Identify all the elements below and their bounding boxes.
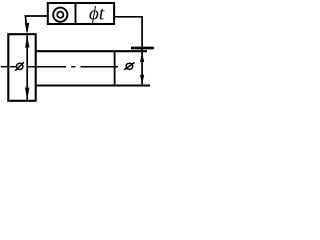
concentricity symbol inner circle <box>57 12 63 18</box>
right leader wire from frame <box>115 17 143 48</box>
dimension up arrowhead <box>25 35 29 47</box>
small shaft dimension up arrowhead <box>140 52 144 62</box>
svg-text:ϕt: ϕt <box>89 4 105 25</box>
small shaft bottom edge <box>35 84 150 86</box>
concentricity symbol outer circle <box>53 8 67 22</box>
feature control frame <box>48 3 114 24</box>
big cylinder outline <box>8 34 35 101</box>
right phi symbol circle <box>126 63 133 69</box>
frame cell divider <box>75 2 77 25</box>
big cylinder diameter dimension line <box>26 36 28 100</box>
left leader wire from frame <box>25 16 47 32</box>
centerline dot dash <box>71 66 75 68</box>
small shaft top edge <box>35 50 147 52</box>
left phi symbol circle <box>17 63 23 69</box>
centerline long dash <box>28 66 66 68</box>
small shaft end face <box>114 51 116 87</box>
dimension down arrowhead <box>25 88 29 100</box>
right phi symbol slash <box>124 62 135 70</box>
centerline long dash right <box>81 66 119 68</box>
left leader arrowhead <box>25 23 29 34</box>
centerline dash outside left <box>1 66 8 68</box>
left phi symbol slash <box>15 62 24 70</box>
centerline dash inside big cylinder <box>10 66 16 68</box>
small shaft dimension line <box>141 48 143 84</box>
small shaft dimension down arrowhead <box>140 75 144 85</box>
datum thick bar <box>131 47 154 50</box>
